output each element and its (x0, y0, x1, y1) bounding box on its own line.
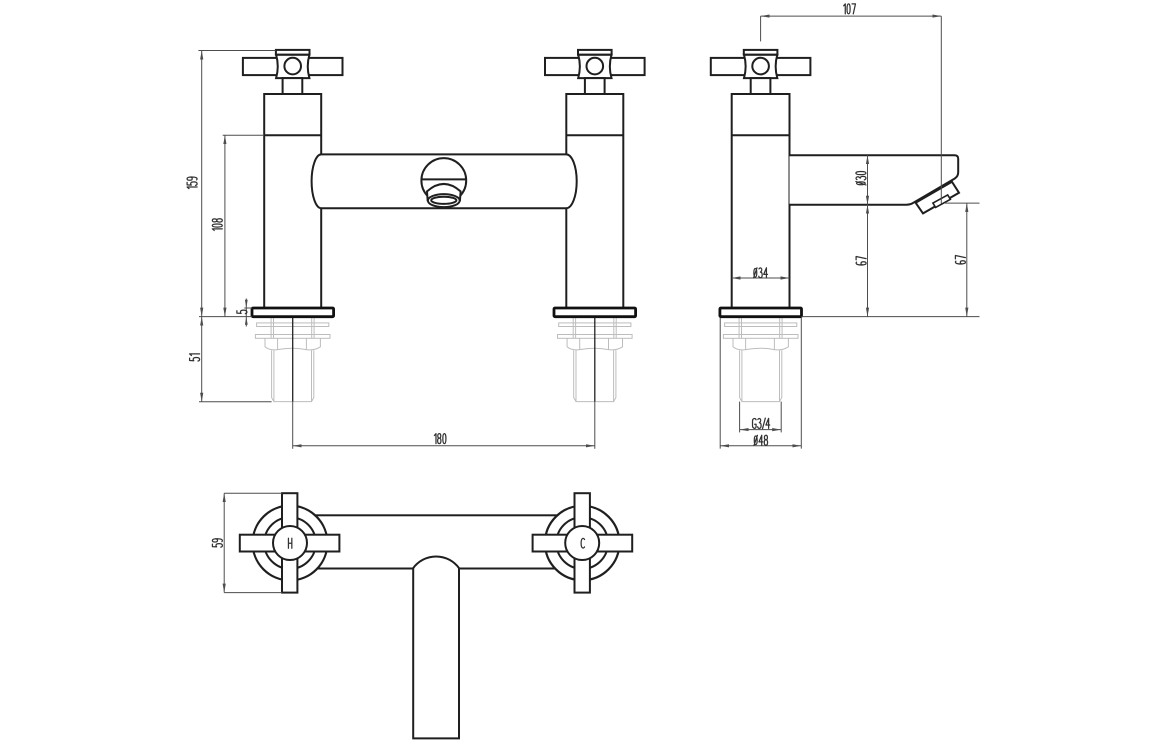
diverter outlet outer ring (428, 194, 460, 207)
front horizontal body (312, 154, 577, 208)
text 180 (434, 434, 446, 444)
dim line dia48 (720, 445, 801, 447)
front right centerline (594, 308, 596, 402)
front left handle stem (283, 78, 303, 94)
side base plate (720, 308, 802, 317)
dim 5 arrows (245, 300, 248, 325)
bottom view left outer circle (253, 506, 328, 581)
text 159 (187, 177, 197, 189)
side handle block (744, 55, 777, 78)
front view right pillar (566, 94, 623, 308)
side view pillar (732, 94, 790, 308)
front left centerline (292, 308, 294, 402)
bottom view left horizontal bar (240, 535, 340, 552)
front left below-deck studs (271, 317, 314, 339)
side handle cap (744, 50, 778, 55)
side below-deck studs (739, 317, 782, 339)
diverter knob sphere (421, 158, 466, 203)
ext line 108 (223, 134, 264, 136)
front right handle stem (585, 78, 605, 94)
bottom view right vertical bar (575, 493, 590, 592)
front left washer 1 (257, 323, 329, 327)
diverter cup (427, 184, 461, 201)
side washer 2 (723, 335, 798, 339)
bottom view left vertical bar (282, 493, 297, 592)
ext lines G3/4 (739, 402, 741, 433)
front left washer 2 (255, 335, 330, 339)
side handle bars (711, 58, 811, 75)
front right handle cap (578, 50, 612, 55)
bottom view right middle circle (556, 517, 608, 569)
text G3/4 (753, 418, 770, 429)
ext line deck right (802, 316, 980, 318)
front right handle block (578, 55, 611, 78)
text dia48 (754, 435, 768, 445)
front right handle bars (545, 58, 645, 75)
front right pillar joint line (566, 134, 623, 136)
ext line top of 159 (198, 50, 275, 52)
text C (581, 538, 584, 548)
front right shank (574, 350, 616, 401)
dim line 67 right (966, 203, 968, 317)
bottom view left middle circle (264, 517, 316, 569)
front right handle circle (587, 58, 604, 75)
front right washer 1 (559, 323, 631, 327)
ext line 107 right (940, 16, 942, 203)
dimension lines (198, 16, 979, 593)
front right nut (567, 338, 622, 349)
front left base plate (252, 308, 334, 317)
front view left pillar (264, 94, 321, 308)
bottom view body (300, 515, 564, 568)
dim line 107 (761, 15, 942, 17)
front right base plate (554, 308, 636, 317)
ext line bottom left (199, 401, 272, 403)
side handle stem (751, 78, 771, 94)
ext line 59 top (224, 492, 282, 494)
text dia30 (856, 172, 866, 185)
dim line 51 (201, 317, 203, 402)
text 5 (237, 310, 247, 314)
dim line 180 (293, 445, 595, 447)
front left handle block (276, 55, 309, 78)
text 59 (212, 539, 222, 547)
side shank (740, 350, 782, 401)
bottom view right hub (565, 526, 599, 560)
bottom view right outer circle (545, 506, 619, 580)
front left nut (265, 338, 320, 349)
dim line 159 (201, 51, 203, 317)
dim line dia30 (867, 155, 869, 205)
front left handle cap (276, 50, 310, 55)
text 51 (190, 354, 200, 361)
dim line 5 (245, 299, 247, 327)
ext line spout tip (945, 202, 980, 204)
ext line 59 bottom (224, 592, 282, 594)
text 67 right (955, 255, 965, 264)
side nut (733, 338, 788, 349)
side pillar joint line (732, 134, 790, 136)
tick at base plate top (244, 307, 252, 309)
front left shank (272, 350, 314, 401)
side spout (790, 155, 959, 205)
side washer 1 (725, 323, 797, 327)
text 107 (844, 4, 856, 14)
ext lines dia48 (719, 318, 721, 449)
ext line 180 left (292, 402, 294, 449)
bottom view left hub (273, 526, 307, 560)
ext line 180 right (594, 402, 596, 449)
bottom view right horizontal bar (533, 535, 633, 552)
front left handle bars (243, 58, 343, 75)
diverter outlet inner ring (431, 197, 456, 204)
dim line 67 left (867, 205, 869, 317)
ext line deck left (199, 316, 252, 318)
dim line dia34 (732, 277, 790, 279)
side spout aerator housing (916, 182, 959, 214)
text dia34 (754, 268, 768, 278)
ext line 107 left (760, 16, 762, 41)
diverter knob chord line (422, 178, 467, 180)
front right washer 2 (558, 335, 633, 339)
front right below-deck studs (573, 317, 616, 339)
front left pillar joint line (264, 134, 321, 136)
dim line 108 (224, 135, 226, 316)
dim line G3/4 (740, 429, 782, 431)
front left handle circle (284, 58, 301, 75)
dim line 59 (223, 493, 225, 592)
side handle circle (752, 58, 769, 75)
side spout aerator slot (933, 195, 951, 208)
text 67 left (856, 256, 866, 265)
text 108 (212, 219, 222, 231)
bottom view spout (413, 556, 459, 738)
text H (288, 538, 291, 548)
